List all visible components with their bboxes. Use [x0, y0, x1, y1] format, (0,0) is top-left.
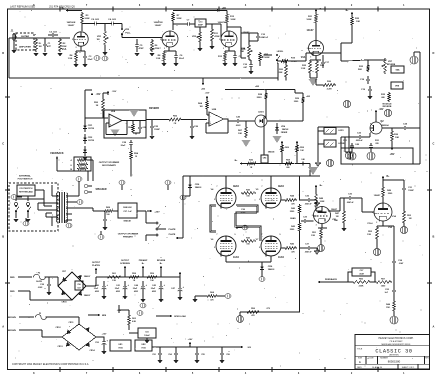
nfb resistor R64b — [206, 291, 218, 301]
svg-text:LP50: LP50 — [241, 212, 246, 214]
footswitch switch 2 — [25, 202, 31, 222]
ext speaker terminal — [119, 180, 125, 190]
feedback resistor R54c — [128, 120, 134, 133]
svg-text:1N4003: 1N4003 — [195, 186, 202, 189]
capacitor C1 ground — [42, 53, 47, 56]
svg-text:1M: 1M — [96, 39, 99, 41]
cathode resistor R4 — [68, 46, 85, 63]
coupling cap C30 — [344, 194, 356, 205]
svg-text:.0047: .0047 — [399, 262, 404, 265]
coupling capacitor C8 — [82, 19, 106, 26]
feedback arrow label — [318, 278, 348, 283]
filter cap C45 — [151, 281, 166, 302]
resistor R69 — [103, 207, 114, 216]
+16V arrow mid — [188, 339, 193, 347]
power tube V5 — [256, 185, 285, 209]
output xformer secondary box — [74, 157, 91, 171]
B+ feed row — [235, 160, 310, 165]
svg-text:680: 680 — [286, 167, 289, 169]
module text — [382, 104, 392, 109]
opamp U2A gray ground — [111, 130, 120, 137]
svg-text:C57 .1uF: C57 .1uF — [123, 211, 132, 213]
svg-text:PREAMP: PREAMP — [139, 259, 148, 262]
screen bus left drop — [169, 176, 183, 239]
B+ feed arrow V1A — [62, 8, 82, 12]
capacitor C25 — [149, 119, 160, 140]
power tube V4 — [211, 185, 240, 209]
svg-text:1.5K: 1.5K — [367, 234, 372, 236]
svg-text:1K: 1K — [96, 105, 99, 107]
svg-text:FOOTSWITCH: FOOTSWITCH — [20, 188, 33, 190]
svg-text:C: C — [432, 142, 434, 146]
terminal bubble 28 — [180, 195, 190, 200]
capacitor C34 — [392, 258, 404, 282]
bridge rectifier CR11-CR14 — [55, 322, 96, 352]
B+ arrow driver — [382, 176, 391, 186]
resistor R6 — [149, 39, 160, 56]
svg-text:1N759: 1N759 — [88, 140, 95, 142]
emitter resistor R36 — [382, 128, 399, 142]
svg-text:2: 2 — [160, 39, 161, 41]
svg-text:EXTERNAL: EXTERNAL — [19, 175, 31, 178]
mains red wire lower — [10, 291, 72, 300]
svg-text:V3A: V3A — [301, 56, 306, 59]
svg-text:OUTPUT: OUTPUT — [92, 262, 101, 264]
resistor R2 — [59, 38, 67, 52]
plate resistor R7 — [172, 12, 182, 30]
diode CR3 to ground — [82, 112, 108, 160]
svg-text:B: B — [2, 235, 4, 239]
svg-text:NFB: NFB — [102, 315, 107, 317]
external footswitch dashed box — [9, 183, 58, 231]
svg-text:470K: 470K — [214, 35, 220, 38]
svg-text:.0022: .0022 — [235, 125, 241, 127]
flyback diode CR6a — [188, 175, 201, 196]
regulator U1 box — [110, 340, 131, 351]
svg-text:.0022: .0022 — [38, 287, 43, 289]
T1 secondary taps — [66, 196, 72, 220]
terminal bubble 31 — [259, 274, 265, 281]
bias feed wire — [240, 311, 300, 313]
svg-text:V1A: V1A — [62, 48, 67, 51]
svg-text:1N4148: 1N4148 — [123, 220, 131, 223]
svg-text:CR6: CR6 — [195, 184, 200, 186]
svg-text:REVERB: REVERB — [383, 106, 392, 108]
nfb jack bubble — [224, 294, 231, 299]
capacitor C53 — [102, 210, 107, 230]
svg-text:EL84: EL84 — [233, 185, 239, 188]
svg-text:100K: 100K — [306, 19, 312, 21]
svg-text:15K: 15K — [386, 307, 390, 309]
resistor R64 — [198, 93, 210, 111]
svg-text:RHYTHM/LEAD: RHYTHM/LEAD — [19, 191, 33, 194]
rail resistor R72 — [0, 0, 1, 1]
reverb lower box — [391, 82, 403, 89]
svg-text:.0047uF: .0047uF — [346, 201, 354, 204]
speaker jack wire — [88, 160, 93, 181]
wire to bridge2 — [46, 317, 79, 325]
plate resistor R12 — [226, 11, 236, 32]
feedback label — [50, 152, 64, 155]
svg-text:470: 470 — [210, 298, 213, 301]
size code number row — [358, 358, 430, 364]
resistor R19 — [280, 53, 309, 63]
bias box ground — [144, 338, 149, 343]
volume pot VR1 — [96, 24, 108, 56]
svg-text:SPKR LOAD: SPKR LOAD — [174, 315, 186, 318]
last-refnum header text — [10, 6, 75, 9]
svg-text:1N4003: 1N4003 — [268, 268, 275, 271]
svg-text:100K/1M: 100K/1M — [154, 22, 163, 24]
svg-text:22uF: 22uF — [87, 59, 93, 61]
svg-text:1N759: 1N759 — [88, 128, 95, 130]
reverb feed resistor R25 — [341, 10, 360, 53]
bridge rectifier CR7-CR10 — [58, 271, 90, 304]
svg-text:C2 .022: C2 .022 — [49, 32, 57, 34]
reverb ground bubbles — [343, 100, 391, 116]
input jack J1 — [11, 30, 20, 48]
svg-text:CR5: CR5 — [263, 158, 267, 160]
dropper resistor R59 — [146, 273, 158, 282]
grid resistor R43 — [241, 189, 256, 198]
svg-text:OUTPUT XFORMER: OUTPUT XFORMER — [99, 162, 120, 164]
feedback resistor R57 — [375, 279, 395, 288]
svg-text:1.5K: 1.5K — [311, 235, 316, 237]
svg-text:12AX7: 12AX7 — [306, 29, 314, 32]
terminal bubble 78 — [129, 311, 143, 330]
V3B plate out wire — [328, 198, 344, 211]
nfb ground left — [192, 296, 206, 302]
plate resistor R48 — [315, 193, 325, 211]
svg-text:1N4007: 1N4007 — [84, 275, 91, 278]
transistor Q2 — [370, 116, 389, 134]
T1 terminal bubble b — [72, 200, 83, 205]
coupling capacitor C7 — [172, 20, 193, 27]
screen bus drop — [299, 176, 301, 201]
footswitch jack box — [17, 185, 35, 196]
svg-text:V3A: V3A — [388, 226, 392, 229]
resistor R66 — [150, 116, 207, 126]
grid coupling cap C29 — [301, 217, 314, 224]
svg-text:C56: C56 — [77, 284, 80, 286]
cathode ground — [309, 79, 318, 86]
preamp bus B — [225, 89, 303, 96]
svg-text:47P: 47P — [47, 45, 51, 48]
reverb switch box S4A — [391, 66, 404, 73]
plate resistor R3 — [81, 12, 90, 31]
V6 V7 bottom wires — [226, 257, 271, 263]
svg-text:LAST REFNUM USED: LAST REFNUM USED — [10, 6, 35, 9]
opamp U2B feedback loop — [206, 118, 229, 133]
svg-text:2: 2 — [259, 247, 260, 249]
svg-text:9: 9 — [280, 234, 281, 236]
bias filter box C51 — [129, 328, 156, 338]
output transformer T1 secondary winding — [67, 193, 68, 222]
output transformer T1 core — [60, 192, 65, 223]
preamp B+ arrow — [139, 259, 148, 277]
svg-text:.0047uF: .0047uF — [260, 36, 269, 39]
svg-text:10K: 10K — [238, 133, 242, 135]
cathode node bubble 30 — [236, 225, 248, 230]
svg-text:3: 3 — [376, 222, 377, 224]
big ground arrow — [308, 167, 318, 175]
resistor R67 gray ground — [242, 140, 251, 147]
svg-text:9: 9 — [235, 234, 236, 236]
right chassis bubble — [400, 224, 407, 234]
svg-text:V2A: V2A — [150, 48, 155, 51]
svg-text:1.5K: 1.5K — [301, 68, 306, 70]
capacitor C36 label — [241, 209, 246, 214]
zener gray ground — [273, 136, 282, 143]
svg-text:1: 1 — [85, 34, 86, 36]
B+ filter bus — [103, 276, 180, 278]
svg-text:7: 7 — [262, 186, 263, 188]
V3A cathode network — [301, 56, 325, 79]
reverb pot VR7 — [382, 58, 396, 74]
chassis ground bubble lower — [390, 312, 398, 324]
svg-text:PLATE: PLATE — [168, 228, 176, 231]
svg-text:20uF: 20uF — [121, 145, 126, 147]
svg-text:2200: 2200 — [257, 97, 263, 99]
orange wire upper — [8, 317, 34, 319]
T1 terminal bubble c — [66, 220, 72, 228]
screen cap C37 — [300, 244, 320, 255]
svg-text:500K: 500K — [264, 57, 270, 59]
svg-text:680P: 680P — [198, 25, 203, 27]
pot VR1 terminal bubble — [102, 55, 108, 60]
reverb send label — [149, 107, 159, 110]
op-amp supply rail — [85, 90, 101, 122]
svg-text:D: D — [2, 51, 4, 55]
driver tube V3B — [312, 206, 338, 227]
svg-text:1: 1 — [174, 34, 175, 36]
svg-text:C52: C52 — [152, 354, 155, 356]
plate resistor R49 — [382, 186, 394, 203]
supply label -26V — [390, 142, 395, 156]
orange wire lower — [8, 330, 62, 337]
resistor R67 — [238, 120, 255, 138]
svg-text:2: 2 — [259, 199, 260, 201]
cathode bypass capacitor C3 — [83, 51, 93, 63]
svg-text:2: 2 — [312, 215, 313, 217]
svg-text:-15V: -15V — [112, 91, 117, 93]
driver tube V3C — [368, 194, 397, 225]
svg-text:SCREENS: SCREENS — [120, 263, 130, 265]
capacitor C5 — [134, 39, 144, 56]
svg-text:REVERB: REVERB — [149, 107, 159, 110]
feedback tap wire — [389, 226, 394, 258]
svg-text:PLATE: PLATE — [169, 233, 176, 236]
svg-text:PULL: PULL — [125, 33, 131, 35]
svg-text:C57: C57 — [77, 287, 80, 289]
svg-text:FEEDBACK: FEEDBACK — [50, 152, 64, 155]
svg-text:1M: 1M — [199, 106, 202, 108]
svg-text:2: 2 — [214, 247, 215, 249]
svg-text:A: A — [2, 324, 4, 328]
svg-text:7: 7 — [217, 186, 218, 188]
dropper resistor R58 — [128, 273, 140, 282]
triode V3A phase splitter — [301, 29, 324, 59]
svg-text:FEEDBACK: FEEDBACK — [325, 278, 338, 281]
svg-text:7: 7 — [262, 234, 263, 236]
pull resistor R58b — [296, 141, 305, 164]
NFB tap — [88, 314, 107, 317]
-26V label — [117, 310, 122, 312]
svg-text:CR11: CR11 — [68, 322, 74, 324]
capacitor C17 — [321, 55, 330, 68]
svg-text:.0047uF: .0047uF — [304, 203, 312, 206]
feedback network box C27 — [352, 268, 371, 276]
V5 plate connection — [270, 176, 272, 188]
svg-text:470K: 470K — [154, 47, 160, 50]
svg-text:2N3904: 2N3904 — [381, 124, 389, 127]
bridge snubber box — [75, 281, 83, 290]
cathode chassis bubble — [373, 240, 380, 256]
svg-text:10-AUG-94: 10-AUG-94 — [372, 366, 383, 369]
supply label -16V — [375, 109, 384, 116]
svg-text:1.5K: 1.5K — [156, 58, 161, 60]
svg-text:-15V: -15V — [96, 94, 101, 96]
cap C46 — [299, 158, 307, 166]
svg-text:1: 1 — [233, 34, 234, 36]
footswitch wires — [16, 190, 52, 217]
svg-text:U2B: U2B — [212, 109, 217, 111]
snubber box R68 C57 — [114, 203, 137, 218]
wire VR1 wiper to V2A grid — [122, 37, 162, 39]
coupling cap C31 — [382, 179, 414, 194]
volume pot VR4 — [240, 33, 258, 58]
copyright footer text — [12, 363, 89, 366]
zener VR4 — [275, 123, 288, 134]
B2 supply drop wire — [255, 86, 260, 88]
svg-text:.022: .022 — [142, 127, 146, 129]
V2B cathode network — [218, 47, 242, 66]
LED1 wire — [267, 120, 303, 122]
svg-text:12AX7: 12AX7 — [331, 208, 338, 211]
secondary sense wire — [66, 208, 103, 211]
tone resistor R11 — [209, 24, 221, 49]
svg-text:V3A: V3A — [392, 215, 396, 218]
switch S2 ground drop — [277, 63, 278, 81]
date sheet row — [357, 366, 414, 369]
regulator U2 box — [135, 340, 152, 351]
svg-text:711 A STREET: 711 A STREET — [389, 340, 403, 343]
capacitor C2 — [48, 32, 58, 38]
coupling capacitor C4 — [101, 18, 117, 26]
diode box CR5 — [261, 150, 274, 163]
svg-text:2.2M: 2.2M — [327, 89, 332, 91]
svg-text:CR14: CR14 — [89, 349, 95, 352]
svg-text:80501580: 80501580 — [388, 360, 401, 364]
screen supply bus — [183, 175, 320, 177]
input jack ground — [11, 44, 16, 53]
svg-text:TITLE: TITLE — [357, 349, 363, 351]
capacitor C33 — [384, 282, 396, 296]
output transformer T1 primary winding — [56, 193, 57, 222]
svg-text:1M: 1M — [409, 218, 412, 220]
capacitor C16 — [243, 58, 254, 74]
svg-text:A: A — [432, 324, 434, 328]
svg-text:10K: 10K — [395, 137, 399, 139]
rail cap C58 — [219, 347, 229, 363]
screen resistor R40 — [290, 204, 301, 214]
power tube V7 — [256, 234, 285, 259]
title block frame — [355, 335, 430, 370]
resistor R1 ground — [33, 53, 38, 56]
capacitor C26 — [189, 119, 198, 140]
reverb return wires — [341, 137, 371, 152]
svg-text:-16V: -16V — [247, 347, 252, 349]
svg-text:CR12: CR12 — [55, 327, 61, 329]
svg-text:U2A: U2A — [111, 110, 116, 113]
svg-text:ZENER: ZENER — [281, 132, 288, 134]
terminal bubble 27 — [98, 231, 104, 239]
svg-text:100K: 100K — [230, 19, 236, 21]
filter cap C40 — [94, 281, 109, 299]
feedback arrow — [56, 156, 74, 171]
svg-text:COPYRIGHT 1994 PEAVEY ELECTRON: COPYRIGHT 1994 PEAVEY ELECTRONICS CORP P… — [12, 363, 89, 366]
svg-text:.0047uF: .0047uF — [304, 251, 312, 254]
bright cap box C13 — [193, 19, 212, 27]
svg-text:DATE: DATE — [357, 366, 362, 369]
svg-text:3: 3 — [310, 57, 311, 59]
regulator filter cap C50 — [95, 337, 108, 354]
power tube V6 — [211, 234, 240, 259]
svg-text:1N4742: 1N4742 — [282, 128, 289, 131]
T1 primary taps — [52, 185, 58, 226]
V3C cathode — [367, 221, 393, 240]
resistor R26 — [316, 79, 336, 91]
svg-text:3: 3 — [75, 47, 76, 49]
svg-text:SECONDARY: SECONDARY — [102, 164, 116, 167]
svg-text:LED1: LED1 — [258, 112, 264, 114]
terminal bubble 33 — [318, 244, 325, 251]
svg-text:RED: RED — [10, 277, 15, 279]
svg-text:+16V: +16V — [188, 339, 193, 341]
svg-text:1M/100K: 1M/100K — [67, 22, 76, 24]
filter cap C44 — [133, 281, 148, 302]
rail cap C54 — [168, 347, 178, 363]
op-amp U2A — [109, 110, 122, 127]
svg-text:12AX7: 12AX7 — [68, 24, 75, 27]
external footswitch label — [18, 175, 33, 181]
bias label2 — [266, 308, 271, 310]
svg-text:BIAS: BIAS — [290, 217, 296, 220]
svg-text:CR10: CR10 — [61, 302, 67, 304]
T1 terminal bubble a — [72, 177, 82, 196]
svg-text:AMPLIFIER: AMPLIFIER — [19, 46, 31, 49]
feedback box leads — [348, 272, 375, 282]
svg-text:1.5K: 1.5K — [112, 280, 117, 282]
svg-text:100K: 100K — [320, 201, 325, 203]
reverb module enclosure box — [341, 148, 413, 164]
svg-text:3: 3 — [223, 48, 224, 50]
output screens arrow — [120, 260, 130, 277]
svg-text:+16V: +16V — [102, 334, 107, 336]
opamp U2A feedback — [106, 120, 128, 135]
input network dashed box — [16, 33, 34, 50]
wire to bridge — [45, 276, 58, 286]
grid stopper R45 — [281, 243, 297, 254]
title block company text — [379, 337, 414, 346]
capacitor C1 — [43, 38, 52, 52]
svg-text:2: 2 — [72, 39, 73, 41]
bias terminal bubble — [237, 312, 244, 322]
title block row lines — [355, 346, 430, 369]
svg-text:2: 2 — [219, 39, 220, 41]
svg-text:2: 2 — [214, 199, 215, 201]
svg-text:E: E — [359, 360, 361, 364]
